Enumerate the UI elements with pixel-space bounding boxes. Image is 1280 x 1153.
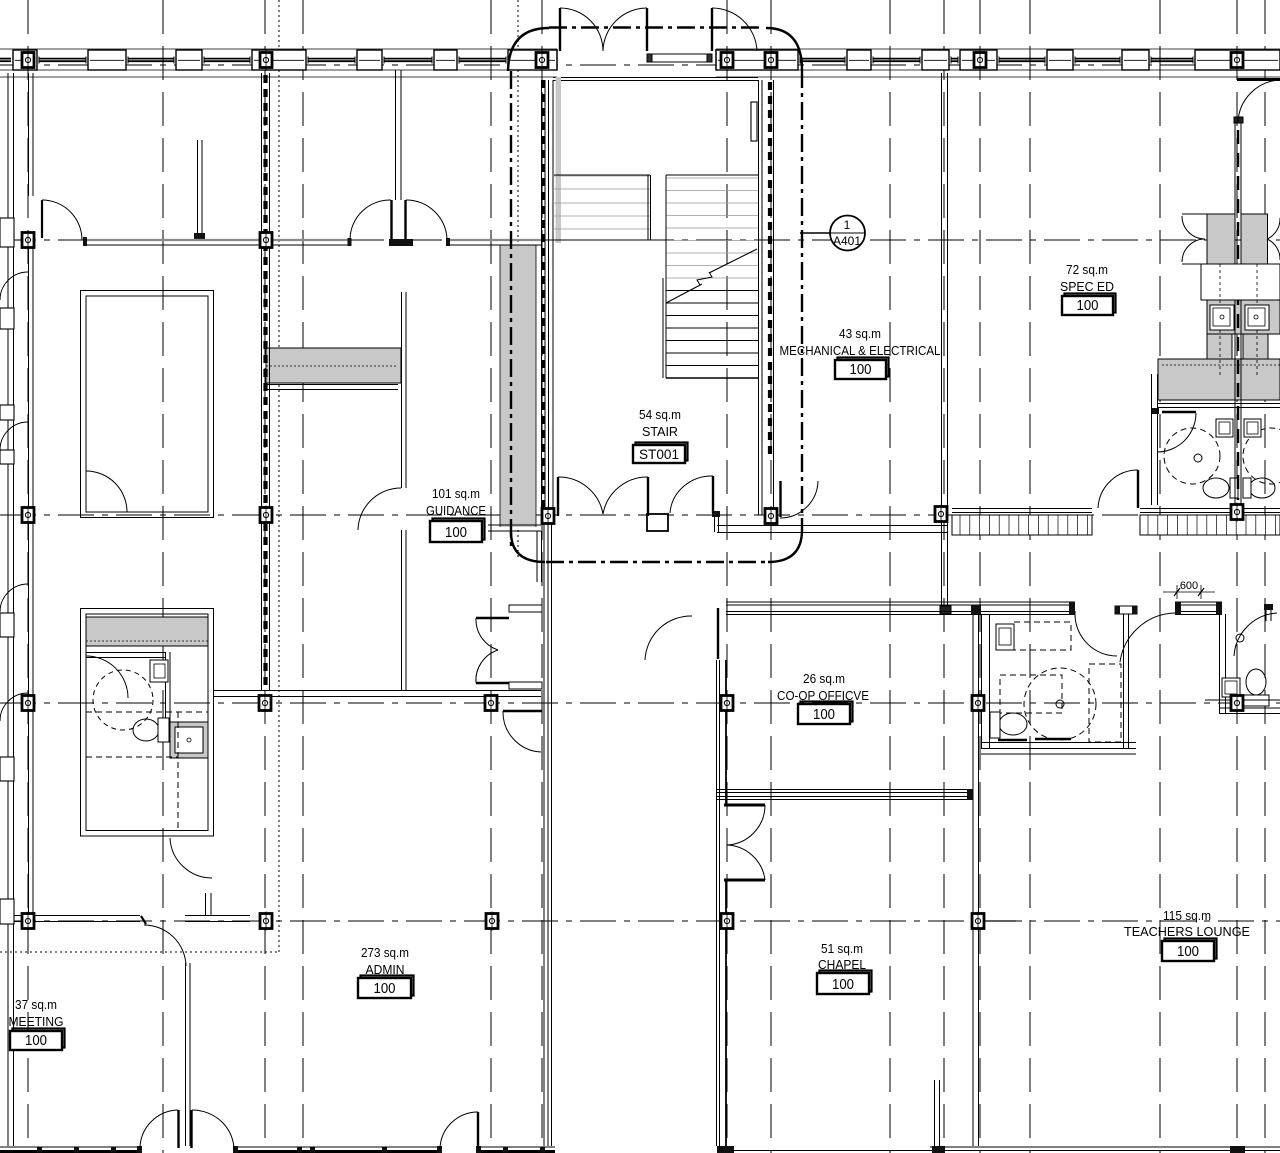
washroom1 bed dashed <box>1014 622 1071 650</box>
co-op north wall <box>726 602 1273 621</box>
svg-text:100: 100 <box>25 1033 47 1049</box>
vestibule stub walls <box>509 605 542 612</box>
entrance door leaf C <box>711 8 713 51</box>
svg-text:100: 100 <box>1177 944 1199 960</box>
corridor west wall lower <box>544 518 552 1146</box>
entrance door leaf B <box>646 8 648 51</box>
washroom1 toilet <box>999 713 1027 735</box>
washroom turning circle <box>93 670 153 730</box>
west exterior wall with windows <box>0 73 14 1146</box>
svg-text:TEACHERS LOUNGE: TEACHERS LOUNGE <box>1124 924 1250 939</box>
m&e door arc <box>670 476 713 513</box>
corridor centre fire line x=511 <box>510 71 512 548</box>
guidance west wall x=403 <box>401 292 403 488</box>
label box meeting <box>13 1029 65 1048</box>
west exterior door arc y=693 <box>0 693 28 721</box>
admin north wall y=240 <box>83 237 541 246</box>
m&e door leaf <box>712 476 714 513</box>
north washroom2 sink <box>1244 419 1261 437</box>
gray spec-ed T counter <box>1158 359 1280 400</box>
chapel west wall <box>717 608 727 1146</box>
column (266,921) <box>260 914 272 929</box>
stair shaft top face <box>553 77 758 79</box>
column (28,240) <box>22 233 34 248</box>
stair door leaf R <box>647 477 649 516</box>
spec-ed west wall of kitchen <box>1151 374 1153 505</box>
washroom2 door arc <box>1120 613 1175 662</box>
svg-text:100: 100 <box>813 707 835 723</box>
column at band x=542 <box>536 53 548 68</box>
svg-text:600: 600 <box>1180 580 1198 592</box>
washroom2 sink <box>1222 678 1240 697</box>
spec-ed center wall upper <box>1234 122 1236 508</box>
label box admin <box>361 976 414 996</box>
stair door leaf L <box>557 477 559 516</box>
corridor west wall upper <box>542 80 554 518</box>
meeting east wall <box>185 963 187 1146</box>
svg-text:26 sq.m: 26 sq.m <box>803 671 845 686</box>
bottom exterior wall <box>0 1146 1280 1153</box>
washroom dashed zones <box>86 711 208 713</box>
gray guidance counter <box>266 348 401 383</box>
washroom1 dashed rect2 <box>1000 675 1062 713</box>
west exterior door arc y=272 <box>0 272 28 300</box>
bottom double door meeting <box>177 1110 179 1148</box>
gray spec-ed closet <box>1207 214 1235 264</box>
vestibule door arcs <box>476 618 498 650</box>
label box guidance <box>433 519 485 540</box>
washroom block walls <box>81 609 214 837</box>
svg-text:MECHANICAL & ELECTRICAL: MECHANICAL & ELECTRICAL <box>780 343 941 358</box>
svg-text:273 sq.m: 273 sq.m <box>361 945 409 960</box>
dimension 600 <box>1163 580 1215 599</box>
svg-text:54 sq.m: 54 sq.m <box>639 407 681 422</box>
label box m&e <box>838 358 889 377</box>
north washroom1 toilet <box>1203 478 1229 498</box>
stair shaft east wall <box>751 80 774 515</box>
m&e east wall <box>941 73 943 614</box>
washroom1 sink <box>996 624 1014 650</box>
svg-text:A401: A401 <box>833 234 861 248</box>
north washroom north wall <box>1158 403 1280 405</box>
callout 1/A401 <box>800 216 865 251</box>
column at band x=771 <box>765 53 777 68</box>
door arc in storage room <box>86 471 127 512</box>
stair up arrow <box>666 284 702 303</box>
washroom exit door arc <box>170 838 212 878</box>
grid lines horizontal <box>0 65 1280 921</box>
chapel doors <box>724 804 765 807</box>
west exterior door arc y=584 <box>0 584 28 612</box>
column at band x=727 <box>721 53 733 68</box>
stair upper flight <box>554 175 651 240</box>
column (492,921) <box>486 914 498 929</box>
column (28,921) <box>22 914 34 929</box>
svg-text:100: 100 <box>374 981 396 997</box>
entrance door leaf A <box>559 8 561 51</box>
fire line bottom <box>546 561 768 563</box>
bottom door admin <box>477 1112 479 1148</box>
north washroom1 door <box>1162 411 1196 414</box>
m&e entry door leaf <box>779 481 781 517</box>
washroom1 circle <box>1024 668 1096 740</box>
washroom1 grab bars <box>998 739 1027 741</box>
guidance door arc <box>358 488 401 530</box>
column at band x=980 <box>974 53 986 68</box>
window band with mullions <box>0 49 1280 77</box>
svg-text:STAIR: STAIR <box>642 424 678 439</box>
svg-text:100: 100 <box>1077 298 1099 314</box>
svg-text:100: 100 <box>445 525 467 541</box>
m&e entry door arc <box>780 481 818 518</box>
column (491,703) <box>485 696 497 711</box>
column (265,703) <box>259 696 271 711</box>
column (548,516) <box>542 509 554 524</box>
entrance threshold <box>647 54 712 62</box>
meeting north wall <box>14 893 250 922</box>
lobby wall stub <box>647 514 668 531</box>
stair door arcs <box>558 477 603 514</box>
door at west partition <box>41 200 43 238</box>
column (266,515) <box>260 508 272 523</box>
svg-text:GUIDANCE: GUIDANCE <box>426 503 486 518</box>
washroom post <box>1115 606 1137 614</box>
column (978,921) <box>972 914 984 929</box>
column at band x=266 <box>260 53 272 68</box>
label box spec ed <box>1065 294 1116 313</box>
north washroom2 toilet <box>1249 478 1275 498</box>
column (941,514) <box>935 507 947 522</box>
column (727,921) <box>721 914 733 929</box>
washroom2 walls <box>1219 614 1280 714</box>
washroom kitchen sink <box>175 727 203 753</box>
svg-text:115 sq.m: 115 sq.m <box>1163 908 1211 923</box>
fire line top <box>549 26 764 28</box>
fire line right x=802 <box>801 70 803 530</box>
west exterior door arc y=422 <box>0 422 28 450</box>
stub line at column 978/921 <box>985 920 1016 922</box>
washroom small sink <box>150 660 168 682</box>
washroom1 dashed rect3 <box>1089 664 1121 742</box>
dotted line y=952 <box>0 951 279 953</box>
svg-text:100: 100 <box>832 977 854 993</box>
chapel-lobby door arc <box>645 616 692 660</box>
chapel se wall <box>934 1080 936 1146</box>
column (28,703) <box>22 696 34 711</box>
washroom2 counter line <box>1205 699 1280 701</box>
spec-ed counter white <box>1201 264 1280 300</box>
gray corridor band <box>500 245 536 527</box>
column at band x=28 <box>22 53 34 68</box>
label box chapel <box>820 971 872 992</box>
corridor door below vestibule <box>503 710 542 713</box>
washroom1 door <box>1074 611 1076 616</box>
washroom1 walls <box>981 614 1136 754</box>
admin north wall y=696 <box>214 690 541 692</box>
double door at (350-447) <box>390 200 392 239</box>
m&e south wall <box>717 525 948 527</box>
stair center flight <box>663 175 758 378</box>
fire line corner BL <box>511 532 545 562</box>
fire line corner BR <box>768 530 802 562</box>
washroom toilet <box>133 719 159 741</box>
washroom2 toilet <box>1246 669 1266 695</box>
svg-text:72 sq.m: 72 sq.m <box>1066 262 1108 277</box>
insulated wall x=265 <box>262 73 270 690</box>
label box stair <box>633 443 688 464</box>
svg-text:ST001: ST001 <box>639 447 679 462</box>
column (1237,703) <box>1231 696 1243 711</box>
column (978,703) <box>972 696 984 711</box>
admin storage room <box>81 291 214 518</box>
svg-text:51 sq.m: 51 sq.m <box>821 941 863 956</box>
gray spec-ed appliance blocks <box>1207 334 1232 359</box>
label box teachers lounge <box>1165 939 1217 959</box>
north washroom1 sink <box>1216 419 1233 437</box>
fire line corner TL <box>508 28 549 71</box>
gray kitchen sink counter small <box>170 722 208 758</box>
north washroom2 circle <box>1243 428 1280 484</box>
svg-text:1: 1 <box>844 218 851 232</box>
gray washroom counter <box>86 617 208 646</box>
north washroom1 circle <box>1164 428 1220 484</box>
spec-ed heavy north wall <box>1237 78 1280 81</box>
chapel north wall <box>717 790 973 800</box>
column (1237,512) <box>1231 505 1243 520</box>
spec-ed closet doors right <box>1267 218 1280 239</box>
meeting door <box>141 916 146 924</box>
column (727,703) <box>721 696 733 711</box>
guidance counter base <box>266 384 398 386</box>
co-op east wall <box>972 608 974 1146</box>
fire line corner TR <box>766 28 802 70</box>
column (266,240) <box>260 233 272 248</box>
svg-text:SPEC ED: SPEC ED <box>1060 279 1114 294</box>
spec-ed entry door arc <box>1238 80 1280 122</box>
column (771,516) <box>765 509 777 524</box>
vestibule door leaves <box>476 617 509 620</box>
dotted line x=279 <box>278 0 280 952</box>
svg-text:43 sq.m: 43 sq.m <box>839 326 881 341</box>
svg-text:100: 100 <box>850 362 872 378</box>
partition x=199 <box>197 140 199 240</box>
spec-ed closet doors left <box>1182 216 1205 239</box>
dotted line x=518 <box>517 0 519 560</box>
partition x=398 <box>395 70 397 200</box>
spec-ed corridor door <box>1137 470 1139 508</box>
west partition wall x=28 <box>29 73 34 915</box>
washroom door arc <box>86 656 128 698</box>
chapel wall cap <box>967 789 973 800</box>
label box co-op <box>801 702 853 722</box>
stair west gray strip <box>556 77 562 243</box>
entrance door arcs AB <box>560 8 603 51</box>
entrance door arc C <box>712 8 757 51</box>
gray spec-ed sink counter <box>1207 300 1280 334</box>
spec-ed sinks <box>1210 305 1234 330</box>
column at band x=1237 <box>1231 53 1243 68</box>
column (28,515) <box>22 508 34 523</box>
svg-text:MEETING: MEETING <box>9 1014 64 1029</box>
corridor lockers band <box>952 509 1280 536</box>
svg-text:37 sq.m: 37 sq.m <box>15 997 57 1012</box>
svg-text:101 sq.m: 101 sq.m <box>432 486 480 501</box>
washroom2 door <box>1234 613 1277 656</box>
